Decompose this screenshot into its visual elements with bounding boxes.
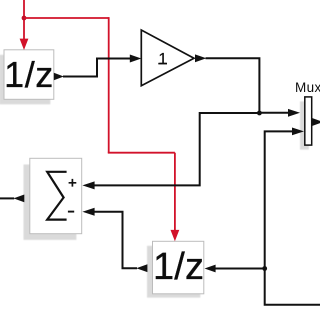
wire: sum output exiting left edge xyxy=(0,197,14,199)
junction dot at gain-output branch xyxy=(257,111,262,116)
red arrowhead into top of unit delay U2 xyxy=(171,230,180,241)
svg-text:1: 1 xyxy=(158,51,167,68)
arrowhead: into sum - input xyxy=(82,208,94,216)
red junction dot xyxy=(22,16,27,21)
arrowhead: Mux output (clipped at right edge) xyxy=(312,118,320,126)
sum block S1 shadow xyxy=(24,165,77,240)
gain G1 triangle xyxy=(141,30,194,86)
svg-text:1/z: 1/z xyxy=(153,246,204,288)
wire: junction to unit delay U2 input xyxy=(215,268,265,270)
wire: U2 output left, up, into sum - input xyxy=(95,212,138,268)
plus sign of sum S1 xyxy=(69,179,77,187)
arrowhead: gain G1 output xyxy=(195,54,206,62)
wire: junction to Mux input 1 xyxy=(259,112,288,114)
sum block S1 xyxy=(30,158,82,233)
minus sign of sum S1 xyxy=(68,211,74,213)
label 1/z of U2 xyxy=(153,246,204,288)
svg-text:1/z: 1/z xyxy=(4,54,54,95)
arrowhead: into gain G1 input xyxy=(130,55,142,63)
svg-text:Mux: Mux xyxy=(295,80,320,95)
sigma symbol of sum S1 xyxy=(47,172,66,220)
arrowhead: output of unit delay U1 xyxy=(54,73,64,81)
label 1 of gain G1 xyxy=(158,51,167,68)
arrowhead: into sum + input xyxy=(82,181,94,189)
unit delay U2 block xyxy=(153,241,204,293)
junction dot on lower vertical net xyxy=(262,266,267,271)
wire: junction left and down to sum + input xyxy=(95,113,261,185)
wire: U1 output to gain input (stepped) xyxy=(63,59,131,77)
wire: red horizontal segment to x=175 xyxy=(108,152,175,154)
arrowhead: unit delay U2 output (leftward) xyxy=(136,264,147,272)
unit delay U2 shadow xyxy=(147,246,200,298)
wire: red horizontal branch at top xyxy=(24,17,109,19)
red arrowhead into top of unit delay U1 xyxy=(20,39,29,50)
unit delay U1 shadow xyxy=(0,55,50,105)
unit delay U1 block xyxy=(4,50,54,100)
arrowhead: into Mux input 2 xyxy=(292,128,304,136)
label Mux xyxy=(295,80,320,95)
wire: red net vertical drop from top into unit delay U1 xyxy=(23,0,25,39)
Mux block xyxy=(305,97,312,145)
wire: lower vertical net to Mux input 2 xyxy=(265,131,320,304)
Mux shadow xyxy=(300,101,309,149)
label 1/z of U1 xyxy=(4,54,54,95)
wire: red vertical drop into unit delay U2 xyxy=(174,153,176,231)
arrowhead: into unit delay U2 right-side input xyxy=(205,265,216,273)
arrowhead: into Mux input 1 xyxy=(288,109,300,117)
arrowhead: sum output (leftward) xyxy=(14,195,25,203)
wire: gain output right then down to junction xyxy=(206,58,260,113)
wire: red vertical segment mid-left xyxy=(108,17,110,153)
